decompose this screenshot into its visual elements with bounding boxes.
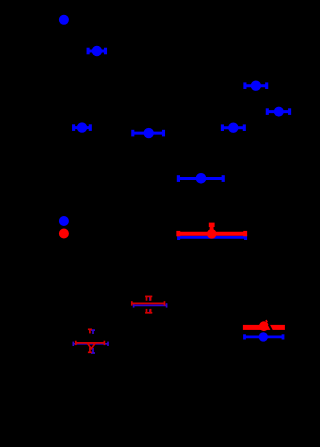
data point P2 (blue disc with x error bar) [87, 46, 106, 56]
right pair: blue point with x error bar [244, 332, 284, 341]
right pair: red thick band [243, 320, 285, 331]
legend red marker [59, 229, 69, 239]
combined point: red y error bar (upper) [209, 225, 215, 234]
faint cross 2: red component [75, 329, 105, 353]
data point P4 (blue disc with x error bar) [132, 128, 165, 138]
faint cross 2: open triangle-down marker [87, 343, 95, 349]
data point P6 (blue disc with x error bar) [266, 107, 290, 117]
combined point: red disc [207, 229, 217, 239]
combined point: red x error bar [177, 231, 246, 236]
data point P8 (blue disc with wide x error bar) [178, 173, 225, 184]
data point P1 (blue disc) [59, 15, 69, 25]
legend blue marker [59, 216, 69, 226]
right pair: black slash over band [269, 324, 272, 330]
faint cross 1: red component [131, 296, 165, 313]
right pair: red disc [259, 321, 269, 331]
data point P3 (blue disc with x error bar) [73, 122, 92, 132]
faint cross 2: blue component [73, 330, 109, 354]
faint cross 1: blue component [133, 297, 167, 314]
data point P7 (blue disc with x error bar) [222, 123, 246, 133]
right pair: red diagonal tick above [266, 320, 267, 322]
combined point: blue x error bar [178, 235, 247, 240]
data point P5 (blue disc with x error bar) [244, 81, 268, 91]
